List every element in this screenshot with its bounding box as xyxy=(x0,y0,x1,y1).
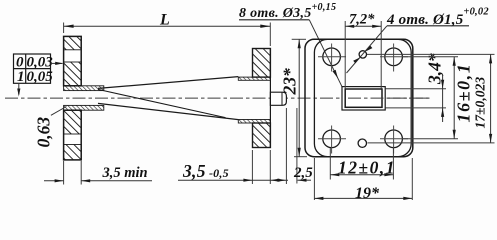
dimension 2,5 extension left (stub tip) xyxy=(285,108,287,184)
left flange lower half body xyxy=(64,110,82,160)
dimension 3,5 min line right part xyxy=(81,180,152,182)
svg-text:L: L xyxy=(159,12,170,29)
label 4 holes lower arrow xyxy=(353,57,360,63)
dimension 3,4 extension bottom xyxy=(386,107,447,109)
bolt hole top-left crosshair xyxy=(318,44,346,72)
feature control frame xyxy=(14,54,51,83)
dimension 12 line xyxy=(330,174,393,176)
aperture centerline dash xyxy=(348,97,431,99)
label 8 holes leader line xyxy=(309,20,342,87)
dimension 3,5-0,5 left arrow xyxy=(243,179,252,182)
svg-text:23*: 23* xyxy=(280,68,300,96)
svg-text:17±0,023: 17±0,023 xyxy=(473,77,488,129)
right flange bottom wall strip xyxy=(238,120,270,124)
dimension 19 extension left xyxy=(313,158,315,200)
dimension 19 line xyxy=(314,197,412,199)
dimension 2,5 right arrow xyxy=(298,179,307,182)
svg-text:7,2*: 7,2* xyxy=(349,12,375,28)
dimension 3,4 extension top xyxy=(386,88,447,90)
dimension 2,5 left arrow line xyxy=(277,179,286,182)
dimension 3,5 min line left part xyxy=(44,180,64,182)
dimension 17 extension bottom xyxy=(368,142,495,144)
dimension 16 extension bottom xyxy=(403,138,458,140)
dimension 12 extension left xyxy=(329,148,331,180)
svg-text:1: 1 xyxy=(17,69,25,85)
svg-text:3,5 min: 3,5 min xyxy=(102,165,148,181)
pin hole top xyxy=(359,51,366,58)
dimension L right arrow xyxy=(260,25,270,28)
frame leader down arrow xyxy=(17,89,20,97)
dimension 3,5 min right arrow xyxy=(81,179,90,182)
bolt hole bottom-left crosshair xyxy=(318,126,346,154)
label 4 holes underline xyxy=(387,25,469,27)
dimension 16 extension top xyxy=(403,56,458,58)
label 8 holes leader arrow xyxy=(333,70,339,79)
dimension 16 top arrow xyxy=(453,57,456,66)
absorber cone top line xyxy=(98,77,238,89)
dimension 3,4 bottom arrow xyxy=(441,108,444,117)
label 8 holes underline xyxy=(239,19,309,21)
right flange top wall strip xyxy=(238,77,270,80)
frame leader right arrow xyxy=(55,62,63,65)
bolt hole top-right xyxy=(385,48,403,66)
roughness leader xyxy=(51,107,67,116)
dimension 23 extension top xyxy=(292,38,306,40)
dimension L extension line left xyxy=(63,23,65,34)
svg-text:3,4*: 3,4* xyxy=(425,53,445,85)
bolt hole top-left xyxy=(323,48,341,66)
dimension 3,5 min left arrow xyxy=(55,179,64,182)
dimension 7,2 line xyxy=(345,25,381,27)
left flange upper half body xyxy=(64,36,82,85)
svg-text:12±0,1: 12±0,1 xyxy=(338,157,396,177)
absorber cone bottom line xyxy=(98,103,238,119)
dimension 12 right arrow xyxy=(384,173,393,176)
absorber cone diagonal generator line xyxy=(98,89,226,117)
dimension 7,2 extension right xyxy=(380,21,382,89)
dimension 17 top arrow xyxy=(489,54,492,63)
right flange lower block xyxy=(253,123,271,148)
dimension 23 line xyxy=(298,39,300,156)
dimension L extension line right xyxy=(269,23,271,47)
right flange upper block xyxy=(253,49,271,78)
dimension L line xyxy=(64,25,271,27)
label 4 holes upper arrow xyxy=(365,46,372,52)
frame leader right xyxy=(51,62,63,64)
dimension 3,5 min extension right xyxy=(80,161,82,185)
dimension 2,5 right arrow line xyxy=(298,179,312,181)
dimension 3,4 top arrow xyxy=(441,80,444,89)
main axis centerline xyxy=(5,97,431,99)
waveguide aperture boss xyxy=(342,87,385,110)
dimension 3,5-0,5 right arrow xyxy=(270,179,279,182)
dimension 3,4 line xyxy=(442,75,444,122)
frame leader down xyxy=(18,83,20,94)
front view outer flange plate xyxy=(305,39,413,156)
label 4 holes leader line xyxy=(347,26,388,73)
dimension 16 line xyxy=(453,57,455,139)
svg-text:16±0,1: 16±0,1 xyxy=(454,63,474,123)
dimension L left arrow xyxy=(64,25,74,28)
dimension 7,2 extension left xyxy=(344,21,346,89)
dimension 12 left arrow xyxy=(330,173,339,176)
dimension 12 extension right xyxy=(392,148,394,180)
dimension 23 top arrow xyxy=(298,39,301,48)
dimension 17 bottom arrow xyxy=(489,134,492,143)
waveguide tube top wall xyxy=(64,86,104,91)
dimension 17 extension top xyxy=(367,53,495,55)
svg-text:2,5: 2,5 xyxy=(293,165,313,181)
front view near flange plate 19 square xyxy=(314,39,411,156)
right flange face line xyxy=(269,49,271,148)
bolt hole top-right crosshair xyxy=(380,44,408,72)
svg-text:0,05: 0,05 xyxy=(27,69,54,85)
bolt hole bottom-right crosshair xyxy=(380,126,408,154)
stub face line xyxy=(281,92,283,105)
dimension 3,5-0,5 extension right xyxy=(269,150,271,184)
svg-text:19*: 19* xyxy=(355,185,380,202)
bolt hole bottom-right xyxy=(385,130,403,148)
bolt hole bottom-left xyxy=(323,130,341,148)
dimension 2,5 extension right xyxy=(296,108,298,184)
dimension 17 line xyxy=(490,54,492,142)
dimension 19 right arrow xyxy=(403,197,412,200)
output stub xyxy=(270,92,286,105)
dimension 19 left arrow xyxy=(314,197,323,200)
dimension 3,5-0,5 extension left xyxy=(251,150,253,184)
svg-text:0,63: 0,63 xyxy=(34,117,54,148)
dimension 3,5-0,5 line xyxy=(178,179,288,181)
dimension 23 bottom arrow xyxy=(298,148,301,157)
dimension 7,2 right arrow xyxy=(372,25,381,28)
dimension 19 extension right xyxy=(411,158,413,200)
dimension 7,2 left arrow xyxy=(345,25,354,28)
dimension 3,5 min extension left xyxy=(63,161,65,185)
dimension 16 bottom arrow xyxy=(453,130,456,139)
waveguide aperture opening xyxy=(345,89,382,107)
pin hole bottom xyxy=(358,139,366,147)
waveguide tube bottom wall xyxy=(64,105,104,110)
dimension 23 extension bottom xyxy=(294,156,307,158)
